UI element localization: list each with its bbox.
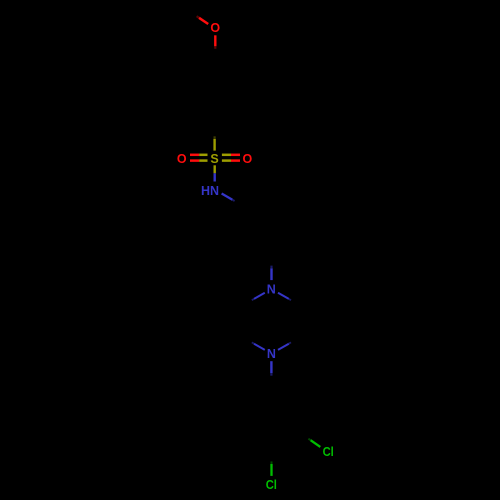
svg-text:O: O (210, 21, 220, 35)
bond S=O right top line (222, 154, 231, 157)
svg-text:N: N (267, 283, 276, 297)
bond N-CH2 (blue half) (222, 194, 233, 200)
bond N pip bottom up-left (blue half) (254, 344, 265, 350)
svg-text:O: O (243, 152, 253, 166)
bond N-aryl (blue half) (270, 361, 272, 373)
svg-text:S: S (210, 152, 218, 166)
bond N pip top down-right (blue half) (278, 293, 289, 299)
bond ring-S (olive half) (213, 139, 215, 151)
svg-text:N: N (267, 347, 276, 361)
svg-text:Cl: Cl (266, 478, 277, 492)
bond N pip top down-left (blue half) (254, 293, 265, 299)
bond N pip bottom up-right (blue half) (278, 344, 289, 350)
bond S=O left bottom line (190, 159, 199, 162)
bond S-N (blue half) (213, 173, 215, 181)
svg-text:HN: HN (201, 184, 219, 198)
bond C-Cl para (green half) (270, 464, 272, 476)
bond C-Cl meta (green half) (311, 440, 321, 447)
bond CH2-N pip (blue half) (270, 268, 272, 280)
svg-text:Cl: Cl (323, 445, 334, 459)
bond S=O left top line (190, 154, 199, 157)
bond O-ring (red half) (214, 35, 216, 46)
bond S=O right bottom line (222, 159, 231, 162)
svg-text:O: O (177, 152, 187, 166)
bond S-N (olive half) (213, 165, 215, 173)
bond CH3-O (red half) (199, 18, 208, 24)
